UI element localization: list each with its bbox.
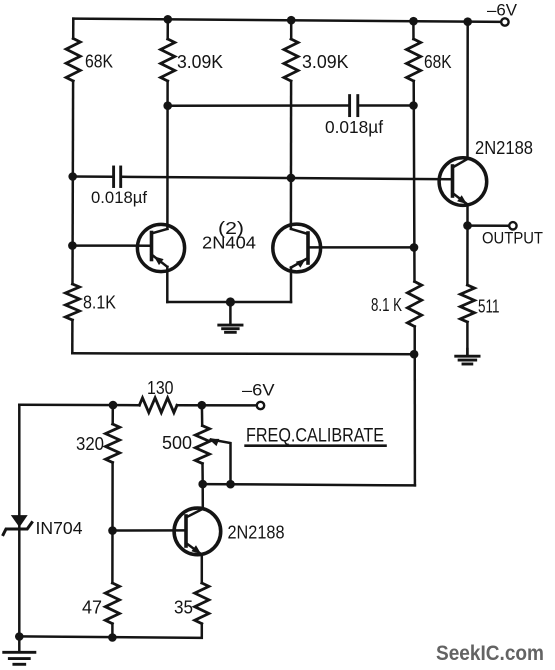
svg-text:0.018µf: 0.018µf <box>91 188 147 207</box>
wire bottom of top section <box>72 352 414 355</box>
svg-text:–6V: –6V <box>487 2 517 20</box>
svg-text:130: 130 <box>147 377 174 398</box>
transistor Q1 collector diagonal <box>152 229 168 234</box>
svg-text:511: 511 <box>478 296 500 317</box>
junction C1 line / V2 <box>163 101 172 110</box>
junction bottom rail / pot riser <box>198 401 207 410</box>
wire V7 lower segment <box>111 624 114 638</box>
wire V2 lower segment (collector Q1 riser) <box>166 81 169 229</box>
wire pot bottom segment <box>201 464 204 484</box>
wire cap C2 line left segment <box>73 175 113 178</box>
wire V6 left vertical <box>18 405 21 637</box>
svg-text:8.1 K: 8.1 K <box>371 294 402 315</box>
junction top rail / V5 <box>463 17 472 26</box>
diode D1 1N704 triangle <box>11 515 28 527</box>
svg-text:IN704: IN704 <box>36 518 83 538</box>
svg-text:500: 500 <box>162 432 192 453</box>
wire bottom -6V rail right part <box>177 404 257 407</box>
wire OUTPUT stub <box>468 224 510 227</box>
svg-text:0.018µf: 0.018µf <box>325 117 383 137</box>
wire Q2 emitter lead <box>290 268 293 303</box>
svg-text:–6V: –6V <box>242 382 275 400</box>
svg-text:35: 35 <box>174 597 193 618</box>
wire V4 middle segment <box>412 81 415 282</box>
wire V4 upper segment <box>412 21 415 39</box>
transistor Q3 emitter arrow (NPN) <box>457 195 467 204</box>
wire Q4 collector lead <box>201 484 204 509</box>
resistor 8.1K (right) body <box>407 282 421 327</box>
resistor 47 body <box>105 583 119 624</box>
junction top rail / V4 <box>409 17 418 26</box>
junction top rail / V2 <box>164 15 173 24</box>
junction bottom rail / V7 <box>109 401 118 410</box>
potentiometer 500 body <box>195 426 209 464</box>
diode D1 zener bar <box>3 523 32 535</box>
wire emitter tie line <box>167 301 291 304</box>
transistor Q3 base bar <box>451 166 455 196</box>
wire V3 lower segment (collector Q2 riser) <box>290 81 293 229</box>
wire bottom -6V rail left part <box>19 404 139 407</box>
wire V2 upper segment <box>166 19 169 39</box>
junction Q1 base / V1 <box>68 241 77 250</box>
capacitor C1 0.018uf plates <box>348 96 351 116</box>
junction V7 / Q4 base <box>108 526 117 535</box>
svg-text:47: 47 <box>82 597 102 618</box>
transistor Q1 emitter diagonal <box>152 255 168 267</box>
ground (below 511) <box>466 349 469 355</box>
resistor 35 body <box>195 583 209 624</box>
wire top -6V rail <box>73 19 501 22</box>
transistor Q4 2N2188 circle <box>174 508 221 555</box>
wire V5 (collector Q3 riser) <box>466 22 469 159</box>
transistor Q2 collector diagonal <box>291 229 308 234</box>
wire tie line to V4 <box>203 484 415 485</box>
resistor 511 body <box>460 285 474 322</box>
junction C1 line / V4 <box>409 101 418 110</box>
transistor Q1 base bar <box>150 233 154 260</box>
transistor Q1 emitter arrow (PNP) <box>154 256 164 265</box>
wire cap C1 line left segment <box>168 104 349 107</box>
wire V1 upper segment <box>72 19 75 39</box>
wire 511 to ground <box>466 322 469 355</box>
wire Q3 emitter lead <box>466 205 469 226</box>
transistor Q2 emitter arrow (PNP) <box>296 259 306 268</box>
transistor Q3 emitter diagonal <box>453 193 468 205</box>
svg-text:68K: 68K <box>85 51 114 72</box>
potentiometer wiper arrow <box>209 439 220 446</box>
junction bottom wire / V6 <box>15 632 24 641</box>
junction Q3 emitter / output <box>463 221 472 230</box>
junction emitter tie / ground <box>226 297 235 306</box>
svg-text:OUTPUT: OUTPUT <box>482 229 543 248</box>
junction top rail / V3 <box>287 16 296 25</box>
resistor 3.09K (left) body <box>161 39 175 81</box>
junction Q2 base / V4 <box>410 243 419 252</box>
capacitor C2 0.018uf plates <box>112 167 115 187</box>
transistor Q4 base bar <box>184 516 188 546</box>
svg-text:3.09K: 3.09K <box>302 51 349 72</box>
ground (bottom left) <box>18 637 21 652</box>
wire V7 upper segment <box>111 405 114 424</box>
transistor Q4 emitter arrow (NPN) <box>191 545 201 554</box>
terminal OUTPUT <box>509 222 516 229</box>
transistor Q3 2N2188 circle <box>439 158 487 206</box>
ground (emitters Q1 Q2) <box>229 302 232 324</box>
svg-text:3.09K: 3.09K <box>177 51 224 72</box>
wire Q3 emitter to 511 <box>466 226 469 285</box>
resistor 3.09K (right) body <box>284 39 298 81</box>
transistor Q4 collector diagonal <box>186 509 203 518</box>
transistor Q3 collector diagonal <box>453 159 468 168</box>
wire V4 lower segment <box>413 327 416 486</box>
junction wiper / tie line <box>226 480 235 489</box>
transistor Q2 emitter diagonal <box>291 258 308 268</box>
wire pot wiper <box>211 440 231 485</box>
wire Q4 emitter lead <box>201 555 204 583</box>
power terminal -6V (top right) <box>501 18 508 25</box>
transistor Q4 emitter diagonal <box>186 543 202 555</box>
junction pot bottom / tie line <box>198 480 207 489</box>
junction bottom wire / V7 <box>108 633 117 642</box>
wire V1 lower segment <box>71 320 74 353</box>
wire V3 upper segment <box>290 20 293 39</box>
svg-text:FREQ.CALIBRATE: FREQ.CALIBRATE <box>246 426 384 447</box>
wire Q1 base lead <box>72 244 151 247</box>
resistor 68K (right) body <box>407 39 421 81</box>
junction bottom wire / V4 <box>410 350 419 359</box>
resistor 130 body <box>139 398 177 413</box>
junction C2 line / V3 <box>287 174 296 183</box>
wire Q4 base lead <box>113 529 187 532</box>
wire Q2 base lead <box>308 246 414 249</box>
wire Q1 emitter lead <box>166 267 169 302</box>
svg-text:2N2188: 2N2188 <box>475 137 533 158</box>
power terminal -6V (bottom) <box>257 402 264 409</box>
svg-text:SeekIC.com: SeekIC.com <box>436 641 544 665</box>
transistor Q2 2N404 circle <box>273 224 321 272</box>
junction C2 line / V1 <box>68 172 77 181</box>
svg-text:320: 320 <box>76 433 104 454</box>
resistor 68K (left) body <box>66 39 80 82</box>
svg-text:2N404: 2N404 <box>202 233 256 253</box>
underline FREQ. CALIBRATE <box>246 444 386 447</box>
transistor Q1 2N404 circle <box>137 224 184 271</box>
wire V7 mid segment <box>111 463 114 584</box>
resistor 8.1K (left) body <box>65 284 79 320</box>
wire V1 middle segment <box>71 81 74 284</box>
wire pot riser <box>201 405 204 426</box>
transistor Q2 base bar <box>306 233 310 263</box>
wire cap C2 line right segment <box>122 177 452 180</box>
svg-text:68K: 68K <box>424 51 452 72</box>
svg-text:8.1K: 8.1K <box>83 292 117 313</box>
wire cap C1 line right segment <box>359 104 414 107</box>
resistor 320 body <box>106 424 120 463</box>
wire 35 bottom elbow <box>19 624 202 638</box>
svg-text:2N2188: 2N2188 <box>228 522 285 543</box>
